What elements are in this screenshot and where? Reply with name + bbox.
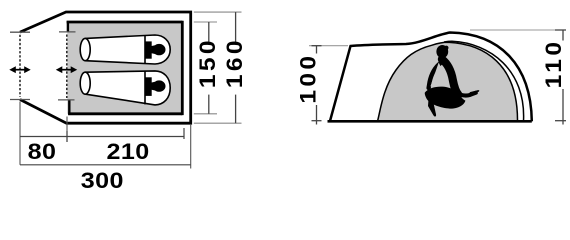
outer door tick top — [10, 31, 30, 33]
extension line for 110 — [470, 29, 563, 31]
vestibule door dotted line (outer, left) — [19, 35, 21, 97]
svg-text:100: 100 — [296, 53, 320, 104]
svg-text:110: 110 — [541, 39, 565, 89]
extension line for 100 — [309, 45, 348, 47]
tick 100 top — [312, 45, 322, 47]
dimension line 160 — [235, 12, 237, 123]
sleeping bag 1: head — [146, 41, 166, 58]
tent top view: outer flysheet outline — [20, 12, 191, 123]
dimension line 300 — [20, 164, 191, 166]
inner tent right border — [181, 21, 184, 115]
inner door tick top — [59, 31, 76, 33]
inner tent top border — [67, 21, 183, 24]
svg-text:80: 80 — [28, 139, 57, 163]
bottom extension line at x=67 — [66, 117, 68, 143]
tick 100 bottom — [312, 120, 322, 122]
extension lines right of top view — [194, 12, 242, 123]
bottom extension line at x=20 — [19, 102, 21, 165]
svg-text:160: 160 — [222, 37, 246, 88]
dimension line 100 — [316, 46, 318, 125]
inner tent bottom border — [68, 112, 182, 115]
folded legs — [425, 87, 466, 109]
inner door tick bottom — [58, 99, 75, 101]
svg-text:300: 300 — [81, 169, 124, 193]
tick 110 top — [555, 29, 566, 31]
tick 110 bottom — [555, 120, 566, 122]
neck — [440, 55, 445, 62]
inner door dotted line — [66, 35, 68, 99]
rear foot tip — [470, 90, 480, 95]
rear shin — [456, 93, 476, 96]
head — [436, 45, 448, 58]
person silhouette — [425, 45, 480, 117]
gap between arm and torso — [430, 63, 449, 87]
door arrow (outer) — [9, 66, 30, 73]
inner tent left border stub (bottom) — [68, 100, 70, 115]
dimension line 80/210 — [20, 136, 184, 138]
arm — [429, 63, 441, 88]
dome inner gray arch — [378, 42, 518, 121]
dimension line 110 — [562, 30, 564, 125]
dimension line 150 — [208, 22, 210, 114]
tick at 184 — [183, 128, 185, 139]
ground line — [328, 120, 532, 123]
bottom extension line at x=190.7 — [190, 125, 192, 169]
torso — [442, 59, 459, 94]
svg-text:150: 150 — [195, 37, 219, 88]
tent top view: inner tent floor (gray) — [67, 22, 182, 114]
inner tent left border stub (top) — [67, 21, 69, 32]
svg-text:210: 210 — [106, 139, 149, 163]
tick at 67 — [66, 131, 68, 142]
outer fly outline — [330, 33, 532, 122]
sleeping bag 1 (top) — [80, 35, 170, 64]
sleeping bag 2 (bottom) — [80, 71, 170, 105]
door arrow (inner) — [56, 66, 77, 73]
front foot — [428, 99, 436, 117]
sleeping bag 2: head — [146, 77, 166, 96]
inner fly thin arc (right) — [444, 41, 524, 121]
outer door tick bottom — [10, 99, 30, 101]
